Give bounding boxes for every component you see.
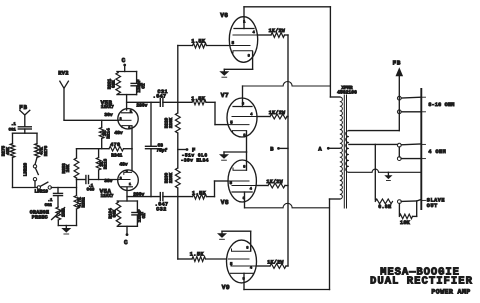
svg-text:C: C [124, 239, 128, 246]
label 30v V5B grid [104, 112, 113, 118]
svg-text:4: 4 [250, 112, 252, 117]
resistor 1.5K V6 grid [178, 39, 230, 48]
svg-text:4: 4 [250, 187, 252, 192]
svg-text:75pf: 75pf [156, 148, 167, 154]
wire V9 cathode to ground [222, 231, 251, 251]
svg-text:C32: C32 [156, 207, 167, 213]
node RV2 antenna [58, 70, 69, 119]
title MESA-BOOGIE [380, 266, 460, 278]
resistor 1K/2W V7 screen [257, 110, 288, 119]
jack 4 OHM [397, 143, 446, 160]
ground V7/V8 [219, 152, 229, 160]
resistor 1K/2W V6 screen [257, 28, 288, 37]
resistor R341 470 (cathode) [77, 142, 133, 158]
label V9 [222, 284, 230, 291]
resistor 1.5K V7 grid [191, 96, 227, 125]
wire V6 cathode to ground [224, 52, 252, 69]
node A primary center tap [318, 147, 339, 153]
svg-text:8: 8 [128, 126, 130, 130]
svg-text:3: 3 [243, 277, 245, 282]
capacitor C3 75pf vertical with wire [146, 102, 168, 196]
svg-text:6.8E: 6.8E [378, 204, 391, 210]
svg-text:OUT: OUT [427, 203, 438, 209]
svg-text:V6: V6 [220, 12, 228, 19]
svg-text:R252: R252 [82, 197, 87, 208]
resistor R281 82K with capacitor C1 120pF parallel (plate load) [108, 72, 147, 95]
svg-text:4562106: 4562106 [337, 90, 357, 96]
resistor 1.5K V9 grid [178, 251, 227, 261]
screen supply rail [287, 35, 289, 266]
tube V5B triode [118, 109, 138, 130]
svg-text:R214: R214 [107, 128, 112, 139]
wire V5B cathode down [131, 126, 133, 149]
resistor R253 10K [62, 149, 79, 178]
svg-text:8: 8 [243, 133, 245, 138]
label V8 [221, 199, 229, 206]
svg-text:220K: 220K [169, 117, 174, 128]
wire C32 to 1.5K V8 [163, 196, 193, 198]
transformer core [344, 95, 346, 208]
title POWER AMP [431, 289, 470, 296]
svg-text:-39v EL34: -39v EL34 [181, 157, 209, 163]
svg-text:220K: 220K [169, 172, 174, 183]
svg-text:4: 4 [253, 30, 255, 35]
tube V5A triode [118, 169, 139, 191]
jack SLAVE OUT [398, 198, 446, 209]
wire plate load to V5B plate [126, 95, 128, 110]
svg-text:C1: C1 [141, 83, 146, 89]
svg-text:2: 2 [126, 169, 128, 173]
wire cathode chain to V5A [131, 149, 133, 171]
wire V6 plate to top rail [244, 6, 330, 8]
wire V5A grid line [77, 178, 85, 180]
LDR20 switch [23, 158, 39, 188]
tube V8 6L6 [228, 160, 256, 208]
svg-text:8: 8 [246, 245, 248, 250]
svg-text:8: 8 [248, 53, 250, 58]
label 280v V5B [136, 103, 147, 109]
svg-text:1: 1 [243, 20, 245, 25]
svg-text:280v: 280v [133, 191, 144, 197]
svg-text:90K: 90K [112, 209, 117, 217]
label V6 [220, 12, 228, 19]
wire V8 plate to transformer [245, 203, 330, 207]
grid bias rail upper segment [177, 46, 179, 114]
transformer XFMR 4562106 label [337, 85, 357, 96]
svg-text:R213: R213 [104, 158, 109, 169]
svg-text:RV2: RV2 [58, 70, 69, 76]
wire C31 to 1.5K V7 [163, 101, 192, 103]
wire secondary top tap to 8-16 ohm jack and FB [349, 76, 399, 130]
ground presence network [61, 226, 71, 235]
svg-text:DUAL RECTIFIER: DUAL RECTIFIER [370, 276, 473, 288]
wire RV2 to V5B grid [64, 119, 118, 121]
svg-text:LDR20: LDR20 [23, 162, 29, 176]
tube V9 6L6 [227, 240, 257, 289]
wire V5A plate down [126, 187, 128, 201]
label 48v V5A cathode [119, 162, 128, 168]
svg-text:2: 2 [120, 117, 122, 121]
resistor 10K slave shunt [399, 201, 416, 226]
resistor R276 47K [35, 144, 49, 158]
resistor R229 220K [165, 113, 181, 133]
grid bias rail lower segment [177, 188, 179, 259]
svg-text:C2: C2 [142, 213, 147, 219]
wire top rail down [330, 7, 339, 97]
jack sleeve bar [420, 89, 422, 209]
svg-text:8-16 OHM: 8-16 OHM [428, 102, 454, 108]
ground V9 [217, 231, 227, 239]
tube V5A... label V5B 12AX7 [101, 99, 115, 110]
label 38v V5A grid [104, 178, 113, 184]
label 280v V5A [133, 191, 144, 197]
LDR19 switch [35, 182, 77, 194]
resistor 1K/2W V8 screen [256, 179, 288, 188]
node F bias feed [178, 148, 209, 164]
capacitor C61 .1 [9, 122, 32, 132]
node FB feedback arrow [393, 59, 404, 76]
wire V5B plate line 280v [127, 101, 159, 103]
svg-text:12AX7: 12AX7 [101, 194, 114, 199]
svg-text:V9: V9 [222, 284, 230, 291]
resistor R214 1K (V5B grid) [99, 120, 111, 148]
ground V6 [219, 69, 229, 77]
svg-text:10K: 10K [400, 220, 411, 226]
wire secondary common to jacks [349, 169, 421, 172]
svg-text:48v: 48v [114, 130, 123, 136]
svg-text:4: 4 [250, 265, 252, 270]
node C lower supply [124, 226, 128, 246]
node FB (feedback) antenna symbol top-left [19, 104, 30, 126]
resistor R213 1K [96, 149, 108, 180]
svg-text:48v: 48v [119, 162, 128, 168]
capacitor C62 .1 [45, 188, 63, 209]
svg-text:LDR19: LDR19 [35, 188, 49, 194]
transformer secondary winding [346, 131, 349, 173]
svg-text:3: 3 [243, 196, 245, 201]
wire V9 plate to transformer [244, 199, 340, 290]
wire presence bottom [58, 225, 76, 227]
svg-text:R276: R276 [44, 145, 49, 156]
potentiometer 28K ORANGE PRSNC [30, 207, 67, 226]
ground secondary common [384, 172, 392, 180]
resistor 1K/2W V9 screen [257, 260, 289, 269]
capacitor C32 .047 [155, 193, 169, 213]
resistor R252 4.7K [74, 180, 87, 226]
svg-text:2: 2 [120, 176, 122, 180]
transformer primary winding [340, 97, 343, 199]
wire V5A plate line 280v [127, 196, 159, 198]
node C upper supply [122, 57, 127, 72]
svg-text:12AX7: 12AX7 [101, 105, 114, 110]
svg-text:8: 8 [243, 164, 245, 169]
svg-text:V8: V8 [221, 199, 229, 206]
resistor R230 220K [165, 168, 181, 188]
resistor 6.8E slave [375, 199, 392, 210]
tube V7 6L6 [227, 86, 257, 138]
svg-text:.1: .1 [48, 198, 53, 203]
resistor R104 90K with capacitor C2 120pF parallel [108, 201, 147, 226]
svg-text:.1: .1 [11, 122, 16, 127]
svg-text:38v: 38v [104, 178, 113, 184]
svg-text:C62: C62 [45, 203, 53, 208]
label 48v V5B cathode [114, 130, 123, 136]
svg-text:PRSNC: PRSNC [32, 214, 48, 220]
svg-text:C40: C40 [87, 188, 95, 193]
svg-text:10K: 10K [66, 164, 71, 172]
label V5A 12AX7 [100, 188, 114, 199]
svg-text:C61: C61 [9, 127, 17, 132]
wire C61 to R275/R276 split [13, 129, 38, 144]
svg-text:1: 1 [130, 109, 132, 113]
svg-text:4 OHM: 4 OHM [428, 149, 446, 155]
wire V7/V8 cathodes to ground [224, 131, 247, 170]
svg-text:C: C [122, 57, 126, 64]
wire rail to node F [177, 133, 179, 168]
wire secondary 4 ohm tap [349, 143, 398, 145]
resistor R275 43K [2, 144, 15, 158]
svg-text:POWER AMP: POWER AMP [431, 289, 470, 296]
svg-text:1: 1 [129, 182, 131, 186]
title DUAL RECTIFIER [370, 276, 473, 288]
wire V7 plate to transformer [243, 82, 331, 86]
svg-text:R341: R341 [111, 153, 122, 159]
svg-text:V7: V7 [221, 92, 229, 99]
wire R275 down to LDR19 line [13, 158, 38, 188]
capacitor C31 .047 [153, 89, 168, 107]
resistor 1.5K V8 grid [192, 181, 228, 199]
node B screen supply [270, 147, 288, 153]
svg-text:C3: C3 [158, 142, 164, 148]
label V7 [221, 92, 229, 99]
svg-text:30v: 30v [104, 112, 113, 118]
svg-text:280v: 280v [136, 103, 147, 109]
svg-text:3: 3 [242, 101, 244, 106]
wire 4 ohm tap to slave feed [374, 144, 376, 200]
tube V6 6L6 [229, 7, 257, 63]
svg-text:FB: FB [393, 59, 402, 66]
jack 8-16 OHM [397, 96, 454, 113]
capacitor C40 .1 (V5A grid coupling) [86, 176, 118, 193]
